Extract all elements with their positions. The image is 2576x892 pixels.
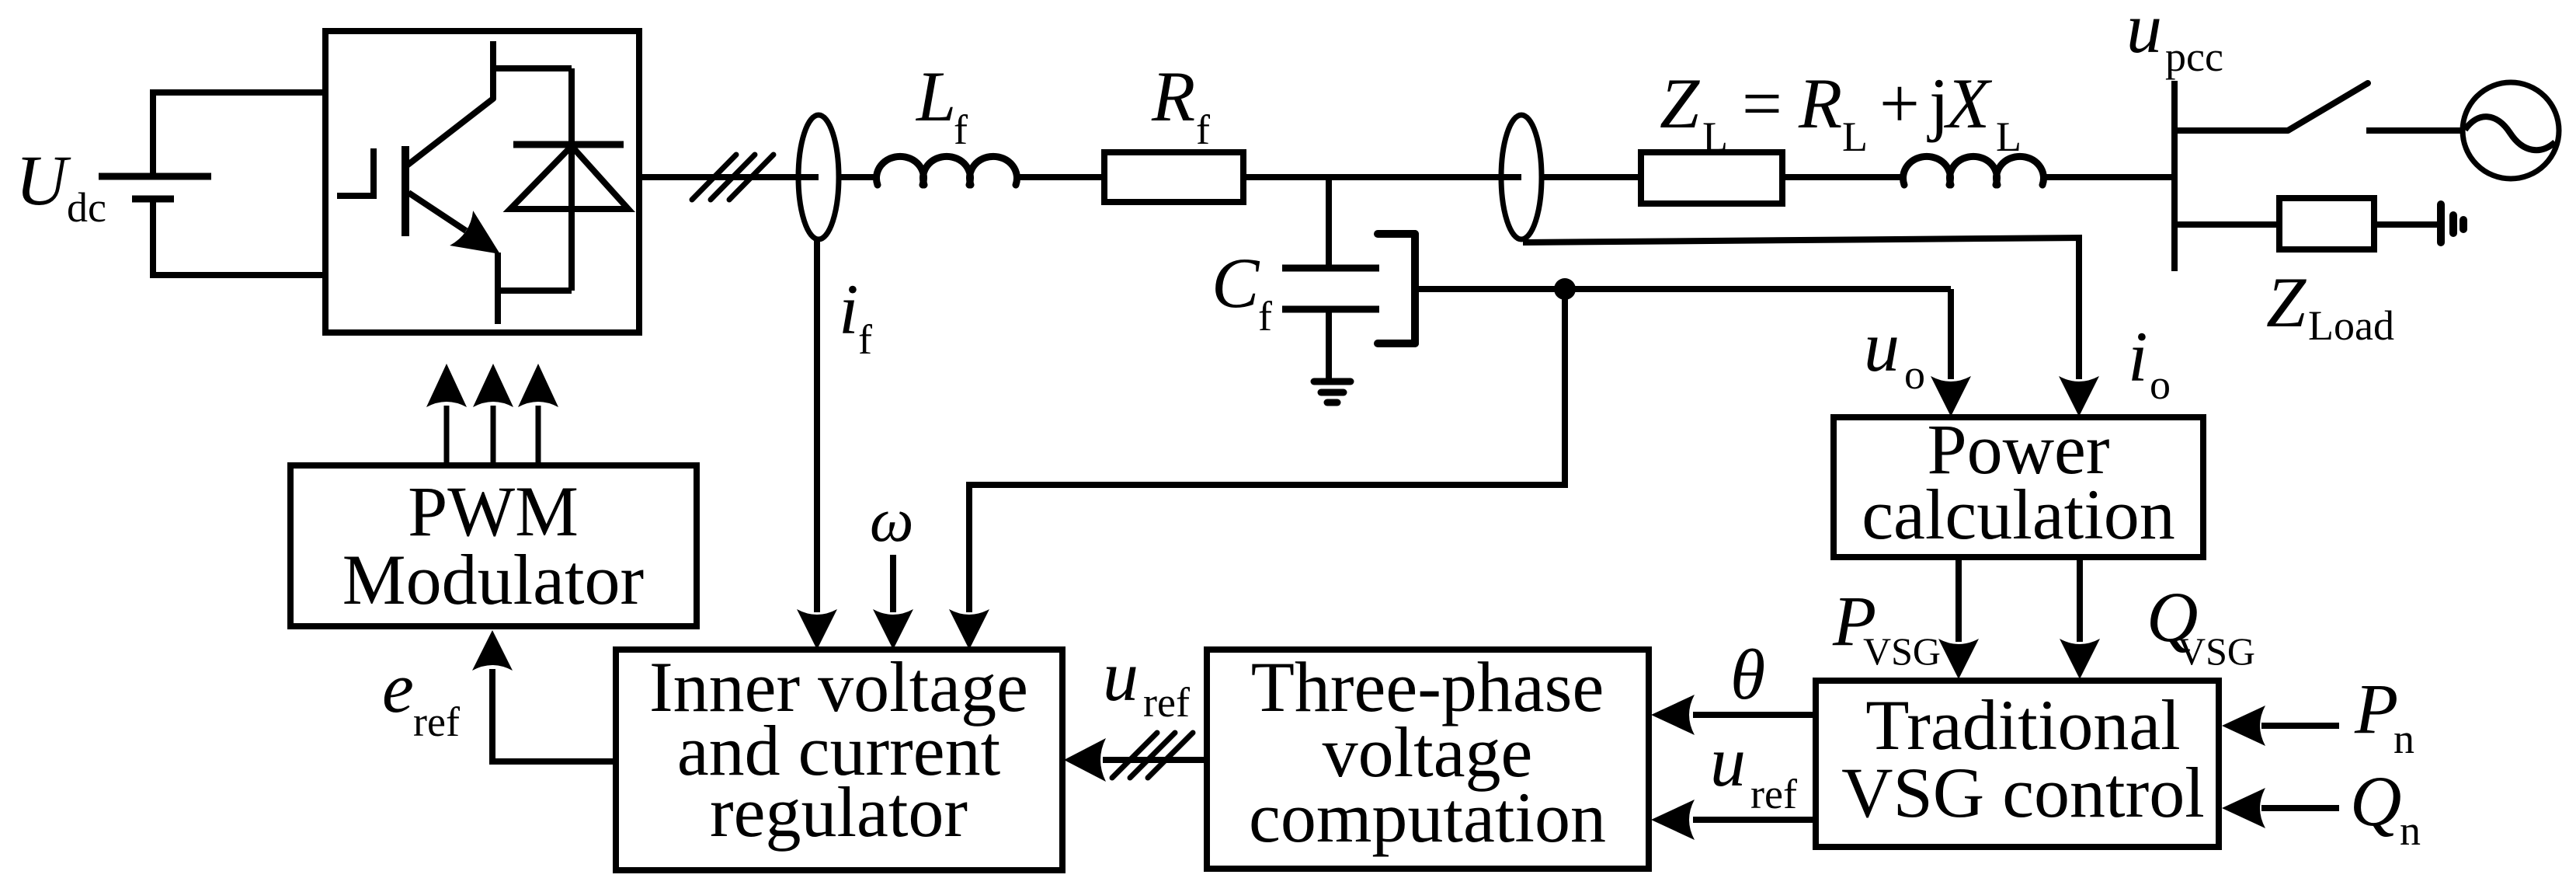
svg-text:i: i: [2128, 317, 2148, 396]
svg-text:Q: Q: [2350, 761, 2401, 841]
label i_o: [2128, 317, 2171, 408]
wire e_ref from regulator to PWM: [492, 669, 619, 761]
wire feedback down-left to regulator: [969, 289, 1565, 612]
wire P_n arrow: [2261, 723, 2339, 729]
wire resistor to sensor2: [1243, 174, 1521, 180]
wire u_o down to power calculation: [1948, 289, 1954, 379]
wire sensor to inductor: [839, 174, 878, 180]
power calculation box: [1834, 417, 2203, 557]
svg-text:f: f: [1258, 293, 1272, 340]
label theta: [1730, 635, 1765, 714]
svg-text:u: u: [2126, 0, 2162, 68]
inductor L_f: [877, 156, 1017, 185]
svg-text:=: =: [1742, 64, 1782, 143]
svg-text:u: u: [1103, 636, 1139, 716]
capacitor C_f plates: [1282, 265, 1379, 272]
svg-text:pcc: pcc: [2165, 33, 2223, 80]
arrow i_f into regulator: [797, 609, 837, 650]
wire inductor to bus: [2042, 174, 2174, 180]
svg-text:ref: ref: [1143, 679, 1190, 726]
label e_ref: [382, 648, 460, 745]
diode D1 vertical lead: [568, 68, 575, 291]
wire capacitor to ground: [1326, 309, 1332, 380]
label u_ref (left): [1103, 636, 1190, 726]
svg-text:ref: ref: [413, 699, 460, 745]
transistor Q1 IGBT bar: [402, 146, 409, 236]
transistor Q1 emitter lead with arrow: [408, 193, 466, 231]
wires PWM to inverter (3 arrows): [447, 406, 538, 465]
diode D1 cathode bar: [513, 141, 624, 148]
wire u_ref three-phase into regulator: [1103, 757, 1207, 763]
arrow i_o: [2059, 376, 2099, 416]
inverter U1 box: [325, 31, 639, 333]
svg-text:f: f: [1196, 106, 1210, 153]
svg-text:Modulator: Modulator: [342, 540, 644, 619]
svg-text:u: u: [1710, 722, 1746, 801]
wire Q_n arrow: [2261, 805, 2339, 811]
svg-text:n: n: [2393, 716, 2414, 762]
svg-text:i: i: [839, 270, 859, 349]
svg-text:θ: θ: [1730, 635, 1765, 714]
wire load to ground: [2374, 221, 2439, 228]
label u_o: [1864, 307, 1925, 398]
three-phase slash marks (u_ref): [1112, 733, 1193, 778]
label Q_n: [2350, 761, 2421, 854]
label C_f: [1212, 243, 1272, 340]
svg-text:n: n: [2400, 807, 2421, 854]
label Q_VSG: [2147, 577, 2255, 673]
wire i_o from sensor bottom: [1523, 238, 2079, 379]
svg-text:X: X: [1943, 64, 1993, 143]
svg-text:R: R: [1798, 64, 1842, 143]
resistor Z_Load: [2279, 198, 2374, 249]
label P_n: [2354, 669, 2414, 762]
svg-text:calculation: calculation: [1862, 475, 2175, 554]
wire resistor to inductor jX_L: [1782, 174, 1904, 180]
inductor jX_L: [1903, 156, 2043, 185]
svg-text:Z: Z: [1660, 64, 1700, 143]
wire i_f measurement: [814, 239, 820, 612]
svg-text:C: C: [1212, 243, 1260, 322]
ground (right-facing): [2441, 204, 2463, 242]
label P_VSG: [1832, 581, 1941, 673]
svg-text:L: L: [1842, 113, 1868, 160]
arrow u_o: [1931, 376, 1971, 416]
label R_f: [1151, 57, 1210, 153]
voltage probe bracket across C_f: [1378, 234, 1415, 343]
ground: [1314, 382, 1351, 402]
svg-text:L: L: [1702, 113, 1728, 160]
wire omega arrow: [890, 555, 896, 612]
diode D1 triangle: [510, 146, 628, 209]
wire inductor to resistor: [1015, 174, 1104, 180]
wire IGBT top link: [493, 65, 572, 71]
three-phase slash marks: [692, 155, 773, 200]
battery V_dc plates: [99, 173, 211, 180]
svg-text:u: u: [1864, 307, 1900, 386]
transistor Q1 collector lead: [407, 41, 493, 166]
wire P_VSG arrow: [1955, 557, 1962, 642]
svg-text:f: f: [954, 106, 968, 153]
wire theta from VSG to computation: [1693, 712, 1816, 718]
svg-text:e: e: [382, 648, 414, 727]
svg-text:regulator: regulator: [710, 772, 968, 852]
svg-text:U: U: [16, 141, 71, 220]
svg-text:computation: computation: [1249, 778, 1606, 857]
switch S1: [2174, 127, 2288, 134]
transistor Q1 IGBT gate: [337, 148, 374, 196]
wire inverter output: [639, 174, 815, 180]
svg-text:L: L: [915, 57, 956, 136]
wire u_ref from VSG to computation: [1693, 817, 1816, 823]
svg-text:Z: Z: [2266, 263, 2307, 342]
wire Q_VSG arrow: [2077, 557, 2083, 642]
svg-text:Load: Load: [2308, 302, 2394, 349]
svg-text:o: o: [1904, 351, 1925, 398]
label u_ref (right): [1710, 722, 1797, 817]
wire battery top loop: [153, 92, 329, 173]
resistor Z_L=R_L: [1641, 152, 1782, 204]
capacitor C_f branch wire: [1326, 177, 1332, 268]
svg-text:ref: ref: [1750, 771, 1797, 817]
svg-text:f: f: [858, 316, 872, 363]
node junction dot: [1554, 278, 1576, 300]
wire sensor2 to load impedance: [1542, 174, 1641, 180]
label u_pcc: [2126, 0, 2223, 80]
PWM modulator box: [290, 465, 697, 626]
label U_dc: [16, 141, 106, 231]
label omega: [870, 486, 913, 555]
svg-text:VSG: VSG: [2178, 629, 2255, 673]
label Z_Load: [2266, 263, 2394, 349]
label Z_L = R_L + jX_L: [1660, 64, 2022, 160]
wire IGBT bottom link: [498, 287, 572, 294]
label i_f: [839, 270, 872, 363]
svg-text:P: P: [2354, 669, 2398, 748]
label L_f: [915, 57, 968, 153]
traditional VSG control box: [1816, 681, 2219, 847]
current sensor ellipse i_o: [1501, 115, 1542, 239]
arrow into regulator (feedback): [949, 609, 989, 650]
inner voltage and current regulator box: [616, 650, 1062, 870]
svg-text:R: R: [1151, 57, 1195, 136]
wire probe output: [1415, 286, 1951, 292]
node u_pcc bus bar: [2171, 81, 2178, 271]
svg-text:PWM: PWM: [408, 472, 579, 551]
svg-text:VSG control: VSG control: [1841, 753, 2205, 832]
svg-text:o: o: [2150, 361, 2171, 408]
resistor R_f: [1104, 152, 1243, 202]
wire load branch: [2174, 221, 2279, 228]
wire battery bottom loop: [153, 202, 329, 275]
svg-text:VSG: VSG: [1863, 629, 1941, 673]
AC grid source: [2463, 82, 2559, 179]
current sensor ellipse i_f: [798, 115, 839, 239]
three-phase voltage computation box: [1207, 650, 1649, 869]
svg-text:dc: dc: [67, 184, 106, 231]
svg-text:ω: ω: [870, 486, 913, 555]
svg-text:+: +: [1879, 64, 1920, 143]
